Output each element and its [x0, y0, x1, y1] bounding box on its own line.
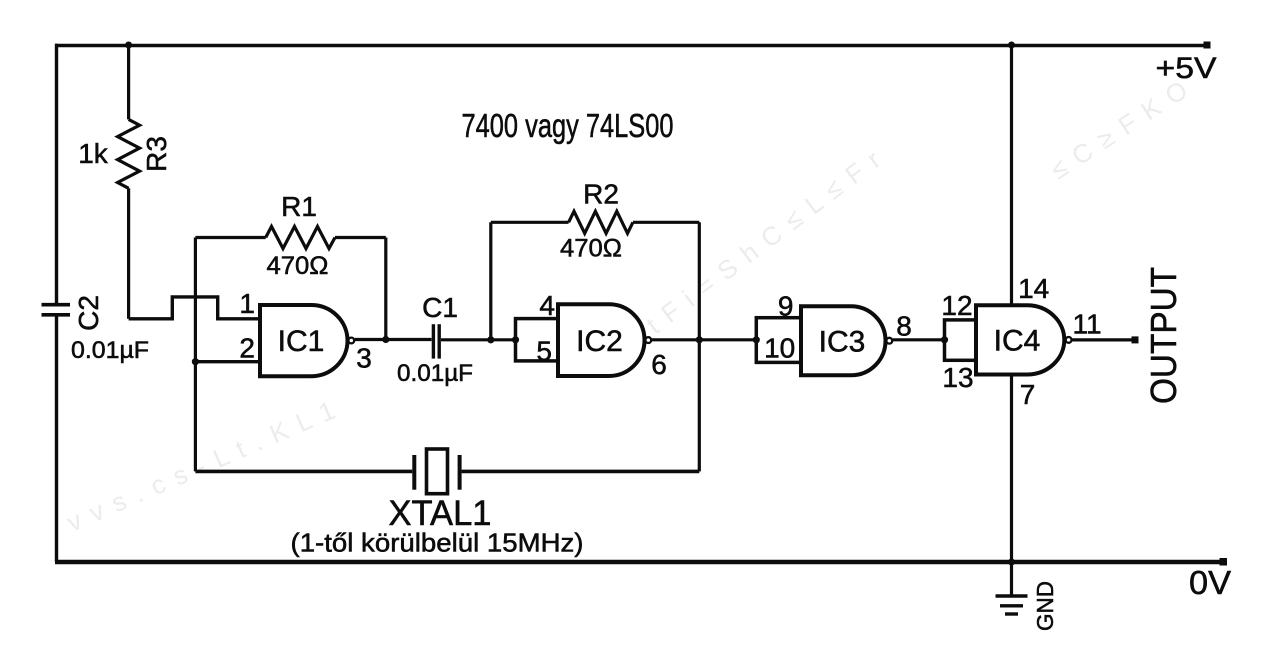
gate IC1 (NAND) — [260, 305, 354, 376]
svg-text:7: 7 — [1020, 379, 1036, 410]
svg-text:11: 11 — [1072, 308, 1101, 339]
wire left vertical (upper part above C2) — [55, 44, 58, 303]
svg-text:0.01µF: 0.01µF — [397, 360, 473, 387]
wire IC2 output to IC3 — [652, 338, 757, 341]
svg-text:1: 1 — [239, 288, 255, 319]
wire top +5V rail — [55, 44, 1207, 48]
wire bottom 0V rail — [55, 560, 1223, 565]
svg-text:IC3: IC3 — [819, 326, 866, 359]
svg-text:5: 5 — [536, 336, 552, 367]
terminal square output — [1132, 336, 1139, 343]
svg-text:R2: R2 — [583, 179, 619, 210]
svg-text:+5V: +5V — [1156, 52, 1217, 85]
crystal XTAL1 — [414, 449, 459, 494]
capacitor C2 — [42, 305, 71, 315]
svg-text:13: 13 — [942, 362, 973, 393]
svg-text:IC2: IC2 — [576, 325, 623, 358]
svg-text:(1-től körülbelül 15MHz): (1-től körülbelül 15MHz) — [291, 528, 584, 558]
ground symbol — [996, 562, 1028, 614]
svg-text:0V: 0V — [1189, 564, 1231, 601]
svg-text:4: 4 — [539, 290, 555, 321]
svg-text:1k: 1k — [78, 138, 109, 169]
svg-text:0.01µF: 0.01µF — [71, 337, 149, 364]
node R2 left junction — [487, 336, 494, 343]
svg-text:10: 10 — [764, 332, 795, 363]
node IC4 box junction — [941, 336, 948, 343]
node power junction bottom — [1008, 559, 1015, 566]
wire C1 to IC2 input box — [441, 338, 516, 341]
svg-text:2: 2 — [239, 333, 255, 364]
svg-text:470Ω: 470Ω — [560, 234, 622, 262]
svg-text:12: 12 — [941, 290, 972, 321]
input tie box IC2 (pins 4/5) — [516, 319, 559, 361]
svg-text:9: 9 — [778, 291, 794, 322]
svg-text:IC4: IC4 — [994, 325, 1041, 358]
node R2 right junction — [696, 336, 703, 343]
gate IC4 (NAND) — [976, 305, 1072, 374]
node IC2 box junction — [512, 336, 519, 343]
wire IC3 output to IC4 — [893, 338, 945, 341]
terminal square 0V — [1220, 558, 1228, 566]
resistor R1 (470 ohm) feedback — [195, 227, 385, 340]
resistor R3 (1k) — [118, 45, 140, 319]
wire left vertical (lower part below C2) — [55, 316, 58, 562]
svg-text:R3: R3 — [141, 136, 172, 172]
wire power vertical (pin 7 to 0V) — [1010, 375, 1013, 563]
svg-text:IC1: IC1 — [278, 325, 325, 358]
junction R3 / +5V rail — [125, 42, 132, 49]
svg-text:14: 14 — [1018, 273, 1049, 304]
wire IC4 output — [1072, 338, 1135, 341]
svg-text:8: 8 — [896, 311, 912, 342]
svg-text:OUTPUT: OUTPUT — [1143, 267, 1184, 404]
wire step from R3 to IC1 pin1 — [129, 297, 260, 319]
node R1 right junction — [382, 336, 389, 343]
input tie box IC4 (pins 12/13) — [945, 320, 977, 360]
terminal square +5V — [1204, 42, 1211, 49]
svg-text:R1: R1 — [281, 191, 317, 222]
svg-text:7400 vagy 74LS00: 7400 vagy 74LS00 — [462, 107, 674, 144]
wire crystal loop bottom left — [195, 470, 412, 474]
capacitor C1 — [433, 324, 439, 358]
gate IC2 (NAND) — [558, 304, 651, 376]
wire IC1 pin2 — [195, 360, 260, 363]
svg-text:C1: C1 — [422, 292, 458, 323]
wire crystal loop bottom right — [462, 470, 700, 474]
node IC3 box junction — [753, 336, 760, 343]
wire IC1 output to C1 — [355, 338, 432, 341]
resistor R2 (470 ohm) feedback — [491, 211, 700, 471]
svg-text:470Ω: 470Ω — [267, 252, 329, 280]
wire power vertical (pin 14 to +5V) — [1010, 45, 1013, 305]
svg-text:GND: GND — [1032, 581, 1058, 631]
node pin2 junction — [192, 358, 199, 365]
input tie box IC3 (pins 9/10) — [756, 318, 801, 363]
svg-text:6: 6 — [651, 349, 667, 380]
wire R1 left vertical down to crystal loop — [194, 238, 197, 472]
gate IC3 (NAND) — [801, 306, 892, 375]
svg-text:C2: C2 — [73, 295, 104, 331]
node power junction top — [1008, 42, 1015, 49]
svg-text:3: 3 — [356, 343, 372, 374]
